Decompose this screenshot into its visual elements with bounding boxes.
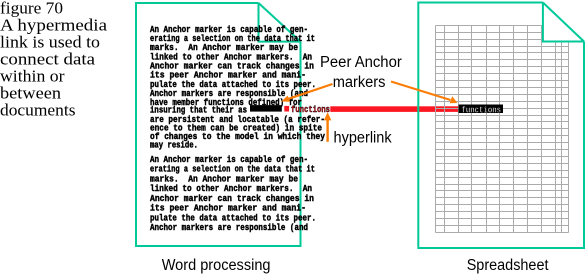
caption: figure 70 description	[0, 0, 107, 120]
spreadsheet document outline	[418, 3, 584, 249]
hyperlink red bar	[330, 106, 458, 112]
arrow to left anchor	[281, 84, 332, 102]
left anchor marker: black box	[250, 105, 282, 112]
svg-text:Anchor markers are responsible: Anchor markers are responsible (and	[150, 222, 308, 233]
svg-text:functions: functions	[291, 104, 330, 115]
svg-text:Peer Anchor: Peer Anchor	[320, 54, 402, 71]
svg-text:Word processing: Word processing	[162, 257, 271, 274]
left anchor marker: red square	[284, 106, 289, 112]
svg-text:hyperlink: hyperlink	[334, 130, 392, 147]
arrow to right anchor	[391, 82, 457, 104]
word-processing document outline	[136, 3, 301, 246]
svg-text:markers: markers	[333, 74, 386, 91]
word-processor text paragraph 2	[150, 154, 316, 233]
svg-text:functions: functions	[462, 104, 502, 115]
word-processor text paragraph 1	[150, 24, 325, 151]
arrow hyperlink (vertical)	[324, 112, 332, 142]
svg-text:Spreadsheet: Spreadsheet	[467, 257, 549, 274]
spreadsheet grid	[436, 26, 569, 233]
svg-text:may reside.: may reside.	[150, 140, 198, 151]
fold cover (white) over grid	[544, 0, 586, 41]
svg-text:documents: documents	[0, 101, 76, 120]
right anchor marker: black box	[459, 105, 504, 114]
